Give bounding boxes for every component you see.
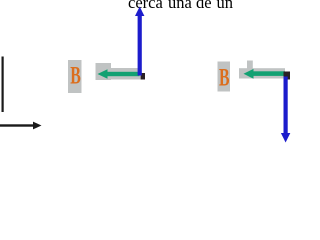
left wire segment [2,57,4,113]
arrowhead 2 [244,69,254,79]
arrowhead 1 [98,69,108,79]
svg-text:B: B [219,63,230,92]
gray plate 2 (behind B label 2) [218,62,231,92]
bottom-left arrowhead [33,122,42,130]
blue arrowhead 2 [281,133,290,143]
current arrow 1 (blue, pointing up) [138,15,142,76]
junction tick 2 [284,72,291,80]
B-field arrow 1 (teal, pointing left) [106,72,140,76]
gray stub above arrowhead 2 [247,61,253,70]
svg-text:cercaunadeun: cercaunadeun [128,0,233,12]
B-field arrow 2 (teal, pointing left) [252,71,285,76]
svg-text:B: B [70,61,81,90]
gray band under shaft 1 [111,68,140,80]
bottom-left arrow line [0,124,36,126]
blue arrowhead 1 [135,7,144,17]
current arrow 2 (blue, pointing down) [284,77,288,135]
gray band under arrow 2 [239,68,285,78]
junction tick 1 [141,73,146,80]
gray pad around arrowhead 1 [96,63,112,80]
gray plate 1 (behind B label) [68,60,82,93]
